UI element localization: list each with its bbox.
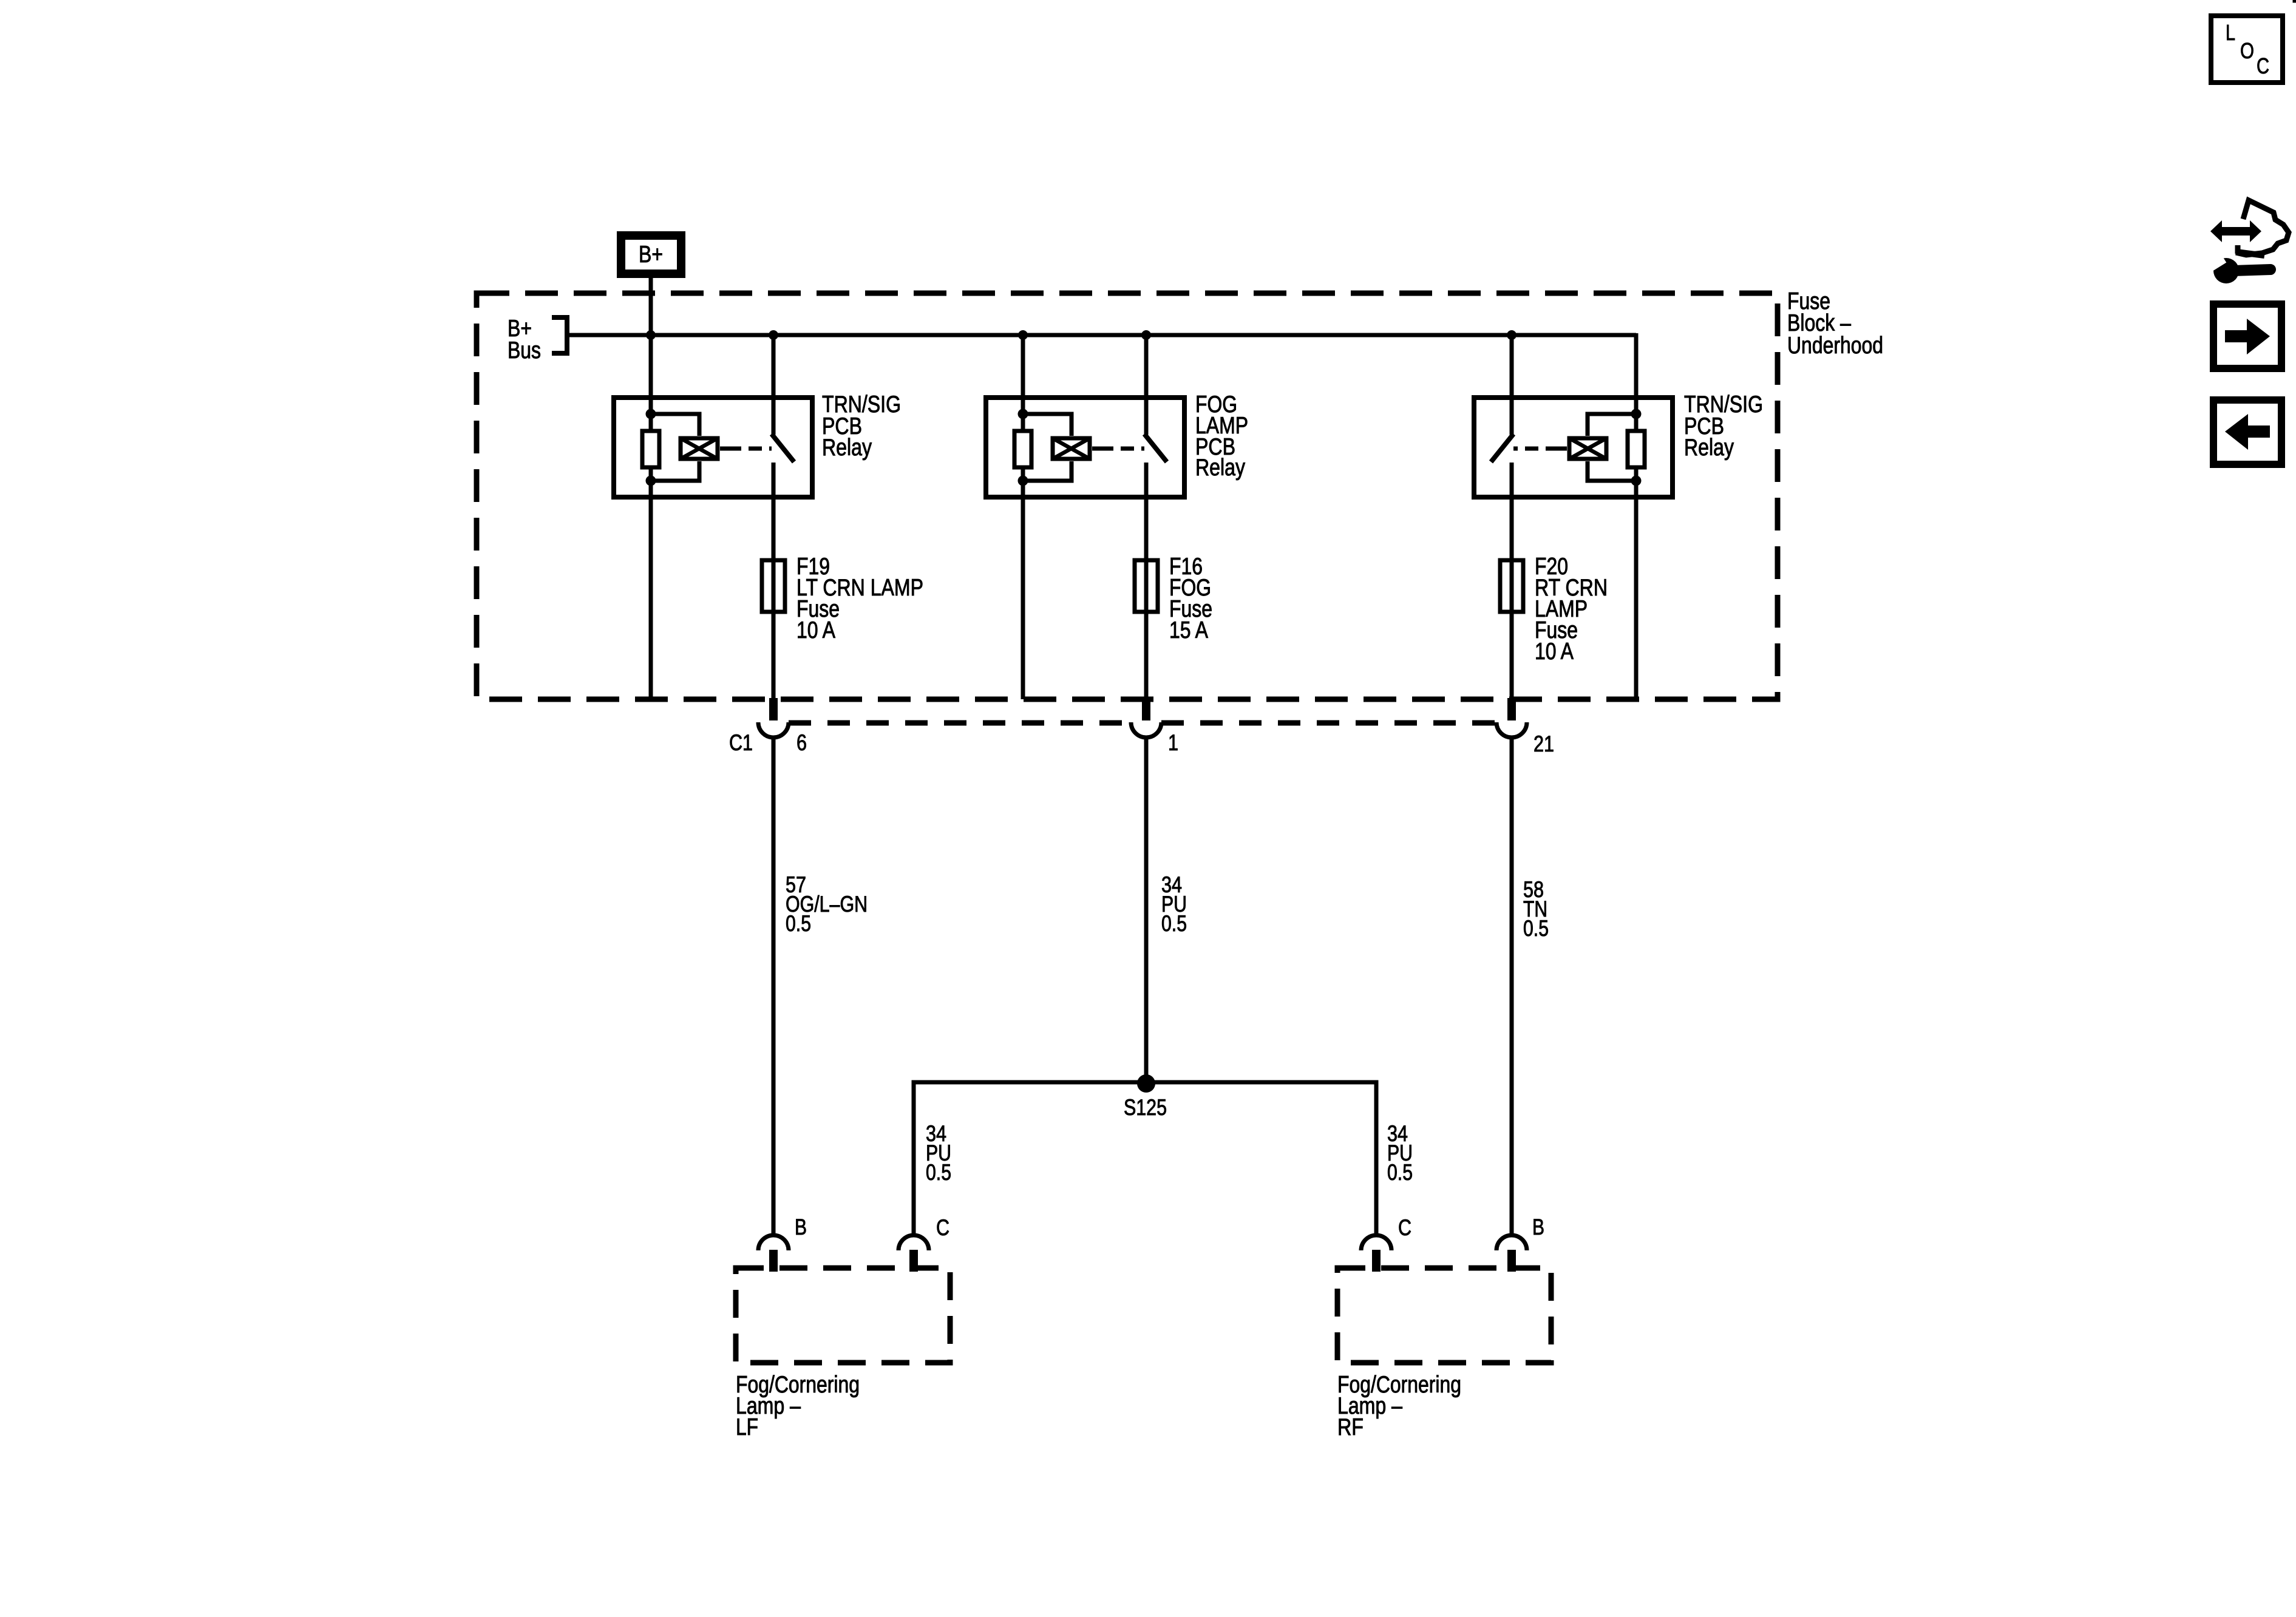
power terminal B+ [621, 236, 681, 274]
label wire 58 [1523, 877, 1549, 941]
svg-text:0.5: 0.5 [786, 911, 811, 936]
wire: relay2 coil return [1021, 469, 1025, 699]
wire 58 TN 0.5 [1510, 737, 1514, 1235]
label: Fuse Block - Underhood [1787, 288, 1883, 359]
svg-text:0.5: 0.5 [1387, 1160, 1413, 1185]
svg-text:LF: LF [736, 1414, 758, 1440]
LOC legend box [2211, 16, 2283, 83]
svg-text:C: C [2257, 53, 2269, 78]
wire: bus to relay2 switch [1144, 335, 1149, 435]
svg-text:Relay: Relay [822, 435, 872, 461]
connector terminal B (RF) [1496, 1235, 1527, 1272]
label fuse F19 [796, 554, 923, 643]
wire: relay3 coil return [1634, 469, 1639, 699]
forward arrow button [2213, 304, 2281, 368]
Fog/Cornering Lamp LF (dashed box) [736, 1268, 950, 1363]
wire: B+ bus [567, 333, 1636, 337]
fuse F16 [1135, 560, 1158, 612]
junction: relay1 switch feed [769, 330, 778, 340]
wire: relay3 switch through fuse F20 to pin 21 [1510, 463, 1514, 698]
svg-text:6: 6 [796, 730, 807, 755]
page corner mark [2293, 0, 2296, 2]
svg-text:1: 1 [1168, 730, 1178, 755]
wire: B+ drop to bus and relay 1 coil [649, 274, 653, 429]
connector C1 in-line (dotted) [789, 720, 1131, 726]
connector terminal C (LF) [898, 1235, 929, 1272]
svg-text:0.5: 0.5 [1161, 911, 1187, 936]
junction: relay3 switch feed [1507, 330, 1517, 340]
label wire 34 RF branch [1387, 1121, 1413, 1185]
wire: relay2 switch through fuse F16 to pin 1 [1144, 463, 1149, 698]
wire 34 PU 0.5 (from pin 1) [1144, 737, 1149, 1084]
svg-text:L: L [2226, 20, 2235, 45]
wire: bus to relay1 switch [772, 335, 776, 435]
svg-text:S125: S125 [1124, 1095, 1167, 1120]
wire: relay1 switch through fuse F19 to pin 6 [772, 463, 776, 698]
svg-text:B: B [1532, 1215, 1544, 1239]
fuse F20 [1500, 560, 1523, 612]
label lamp LF [736, 1372, 860, 1440]
label wire 57 [786, 872, 868, 936]
svg-text:B: B [795, 1215, 807, 1239]
svg-text:10 A: 10 A [796, 617, 835, 643]
svg-text:10 A: 10 A [1535, 639, 1574, 665]
back arrow button [2213, 400, 2281, 464]
wire: relay1 coil return [649, 469, 653, 699]
Fog/Cornering Lamp RF (dashed box) [1337, 1268, 1551, 1363]
junction: relay2 coil feed [1018, 330, 1028, 340]
wire: bus to relay2 coil [1021, 335, 1025, 429]
label relay 1 [822, 392, 901, 461]
svg-text:C1: C1 [729, 730, 753, 755]
wire 57 OG/L-GN 0.5 [772, 737, 776, 1235]
fuse F19 [762, 560, 785, 612]
wire: bus corner to relay3 coil [1634, 333, 1639, 429]
connector C1 pin 6 [758, 698, 789, 737]
svg-text:0.5: 0.5 [926, 1160, 951, 1185]
relay: TRN/SIG PCB relay (left) [614, 398, 812, 497]
connector terminal C (RF) [1361, 1235, 1391, 1272]
label fuse F20 [1535, 554, 1608, 665]
svg-text:0.5: 0.5 [1523, 916, 1549, 941]
label wire 34 LF branch [926, 1121, 951, 1185]
label lamp RF [1337, 1372, 1461, 1440]
svg-text:B+: B+ [639, 242, 663, 268]
svg-text:Bus: Bus [508, 337, 541, 364]
connector terminal B (LF) [758, 1235, 789, 1272]
svg-text:Relay: Relay [1684, 435, 1734, 461]
connector C1 pin 1 [1131, 698, 1161, 737]
connector C1 pin 21 [1496, 698, 1527, 737]
relay: TRN/SIG PCB relay (right, mirrored) [1474, 398, 1673, 497]
svg-text:21: 21 [1533, 731, 1554, 756]
svg-text:Relay: Relay [1195, 455, 1245, 481]
fuse block boundary (dashed) [477, 293, 1778, 699]
svg-text:O: O [2240, 38, 2254, 63]
label fuse F16 [1169, 554, 1212, 643]
node label B+ Bus with bracket [508, 316, 567, 364]
svg-text:RF: RF [1337, 1414, 1364, 1440]
wire: bus to relay3 switch [1510, 335, 1514, 435]
junction: B+ drop on bus [646, 330, 656, 340]
label wire 34 upper [1161, 872, 1187, 936]
service manual icon: double arrow, body panel outline, wrench [2206, 200, 2289, 283]
label relay 3 [1684, 392, 1763, 461]
svg-text:15 A: 15 A [1169, 617, 1208, 643]
svg-text:C: C [936, 1215, 949, 1240]
label relay 2 [1195, 392, 1248, 481]
splice S125 [1137, 1074, 1155, 1093]
junction: relay2 switch feed [1141, 330, 1151, 340]
svg-text:C: C [1398, 1215, 1411, 1240]
wire: splice branches to lamps [914, 1082, 1376, 1235]
relay: FOG LAMP PCB relay (middle) [986, 398, 1184, 497]
svg-text:Underhood: Underhood [1787, 333, 1883, 359]
